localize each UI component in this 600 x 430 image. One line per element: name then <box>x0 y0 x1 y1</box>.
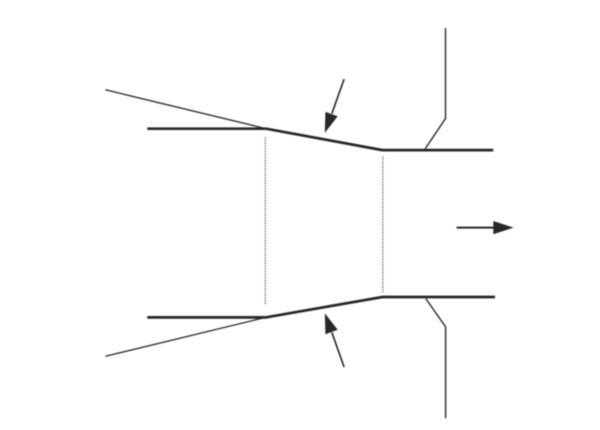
oblique shock line top <box>105 90 266 129</box>
bottom wall <box>147 297 495 317</box>
top boundary line with bend <box>425 28 445 149</box>
bottom pointer arrow shaft <box>332 332 344 367</box>
oblique shock line bottom <box>105 317 265 356</box>
flow direction arrowhead <box>493 221 513 234</box>
bottom pointer arrowhead <box>325 313 338 334</box>
top pointer arrowhead <box>325 112 338 133</box>
throat station dotted line (left) <box>264 138 266 305</box>
top wall <box>147 129 493 150</box>
top pointer arrow shaft <box>332 79 344 114</box>
bottom boundary line with bend <box>426 299 446 419</box>
flow direction arrow shaft <box>457 227 496 229</box>
normal shock dotted line (right) <box>382 157 384 293</box>
